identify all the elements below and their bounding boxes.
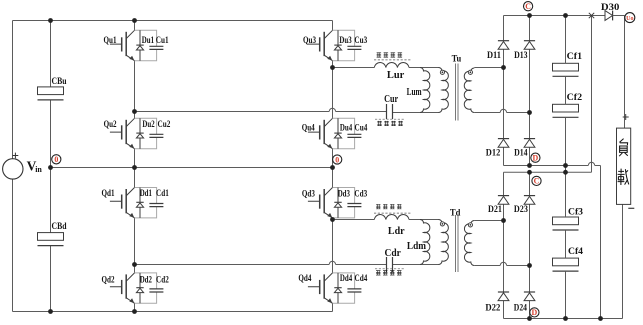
svg-text:Uo: Uo — [626, 16, 633, 22]
wire left rail upper — [12, 21, 14, 159]
wire hop over leg2 lower — [329, 261, 335, 264]
polarity dot Tu secondary — [468, 70, 472, 74]
source Vin — [3, 159, 23, 179]
wire node B to Lur — [333, 67, 375, 69]
diode D21 — [498, 196, 509, 205]
svg-text:Cf3: Cf3 — [568, 208, 583, 218]
svg-text:D12: D12 — [486, 149, 501, 159]
svg-text:Dd1: Dd1 — [140, 189, 152, 199]
svg-text:Cf2: Cf2 — [567, 93, 583, 103]
svg-text:Du3: Du3 — [339, 36, 351, 46]
capacitor CBu — [38, 87, 64, 100]
transformer Tu core — [456, 64, 459, 121]
svg-text:Cd1: Cd1 — [156, 189, 169, 199]
node C lower — [532, 176, 541, 185]
svg-text:D23: D23 — [514, 205, 528, 215]
svg-text:D21: D21 — [488, 205, 502, 215]
wire Ldr to Td primary top — [409, 219, 439, 221]
wire D13 column — [529, 16, 531, 166]
svg-text:Qd3: Qd3 — [302, 189, 315, 199]
wire link C-lower to top — [591, 16, 593, 173]
wire hop over output line — [588, 162, 594, 165]
svg-text:D13: D13 — [514, 51, 528, 61]
wire Cdr to Td primary bottom — [393, 264, 439, 266]
svg-text:D11: D11 — [487, 51, 501, 61]
svg-text:0: 0 — [335, 155, 339, 164]
junction dots — [48, 18, 53, 23]
polarity dot Td secondary — [468, 223, 472, 227]
diode D13 — [524, 41, 535, 50]
transformer Tu secondary — [464, 68, 474, 113]
diode D12 — [498, 139, 509, 148]
wire D30 to load — [613, 16, 625, 129]
wire hop over D11 column — [500, 109, 506, 112]
wire hop over D21 column — [500, 262, 506, 265]
diode D14 — [524, 139, 535, 148]
transistor Qu2 with diode Du2 and capacitor Cu2 — [110, 118, 163, 148]
svg-text:Cu3: Cu3 — [354, 36, 367, 46]
svg-text:Qd4: Qd4 — [298, 274, 311, 284]
svg-text:Du4: Du4 — [340, 123, 352, 133]
transistor Qu1 with diode Du1 and capacitor Cu1 — [110, 30, 163, 60]
svg-text:D: D — [532, 308, 538, 317]
wire node B2 to Ldr — [333, 219, 375, 221]
svg-text:Cu4: Cu4 — [355, 123, 368, 133]
svg-text:Qu2: Qu2 — [104, 120, 117, 130]
svg-text:D24: D24 — [514, 303, 527, 313]
svg-text:Qd2: Qd2 — [102, 275, 115, 285]
wire mid rail (node 0) — [51, 167, 333, 169]
inductor Lur — [374, 63, 409, 68]
polarity dot Tu primary — [440, 70, 444, 74]
transformer Td core — [456, 215, 459, 272]
svg-text:Cd3: Cd3 — [354, 189, 367, 199]
inductor Lum (magnetizing upper) — [420, 68, 430, 113]
inductor Ldm (magnetizing lower) — [420, 220, 430, 265]
capacitor Cf4 — [553, 258, 579, 271]
wire bottom rail — [13, 311, 333, 313]
wire left rail lower — [12, 179, 14, 311]
svg-text:D30: D30 — [601, 3, 620, 13]
svg-text:Cf1: Cf1 — [567, 52, 583, 62]
svg-text:Lur: Lur — [387, 70, 405, 81]
wire D23 column — [529, 172, 531, 318]
transistor Qu3 with diode Du3 and capacitor Cu3 — [308, 30, 362, 60]
svg-text:Cdr: Cdr — [385, 248, 402, 259]
wire top rail — [13, 20, 333, 22]
capacitor Cf2 — [553, 104, 579, 117]
svg-text:Qu4: Qu4 — [302, 123, 315, 133]
svg-text:Du2: Du2 — [142, 120, 154, 130]
diode D23 — [524, 196, 535, 205]
wire hop over leg2 upper — [329, 108, 335, 111]
label resonant-capacitor upper (CJK) — [375, 118, 404, 120]
wire node A to Cur — [135, 111, 387, 113]
transformer Tu primary — [439, 68, 449, 113]
capacitor Cur — [387, 104, 393, 119]
svg-text:Cur: Cur — [384, 94, 398, 105]
svg-text:Cu2: Cu2 — [158, 120, 171, 130]
wire Td secondary top to D21 junction — [474, 220, 503, 222]
wire rectifier bottom rail upper — [504, 165, 601, 167]
transformer Td secondary — [464, 221, 474, 266]
label plus — [623, 114, 629, 120]
svg-text:Cf4: Cf4 — [568, 247, 583, 257]
svg-text:Cd4: Cd4 — [355, 274, 368, 284]
node C upper — [524, 2, 533, 11]
svg-text:Lum: Lum — [407, 87, 422, 98]
wire link D-upper to bottom — [600, 166, 602, 319]
transistor Qu4 with diode Du4 and capacitor Cu4 — [308, 118, 362, 148]
wire D11 column — [503, 16, 505, 166]
wire rectifier top rail lower — [504, 171, 592, 173]
svg-text:Ldr: Ldr — [388, 226, 405, 237]
svg-text:Qu1: Qu1 — [104, 36, 117, 46]
label minus — [628, 207, 634, 209]
svg-text:Dd2: Dd2 — [140, 275, 152, 285]
svg-text:in: in — [35, 165, 42, 174]
label resonant-inductor upper (CJK) — [377, 52, 382, 57]
capacitor Cdr — [387, 257, 393, 272]
transformer Td primary — [439, 220, 449, 265]
transistor Qd4 with diode Dd4 and capacitor Cd4 — [308, 273, 362, 303]
svg-text:D: D — [533, 154, 539, 163]
label load char zai — [618, 169, 629, 185]
diode D22 — [498, 292, 509, 301]
wire Td secondary bottom to D23 junction — [474, 265, 529, 267]
wire load bottom return — [622, 204, 624, 318]
node Uo — [625, 13, 635, 23]
svg-text:C: C — [525, 2, 531, 11]
svg-text:Qu3: Qu3 — [303, 36, 316, 46]
node 0 at source — [52, 155, 61, 164]
diode D30 — [605, 11, 613, 21]
wire leg1 segments — [134, 21, 136, 312]
svg-text:Cd2: Cd2 — [156, 275, 169, 285]
svg-text:Tu: Tu — [452, 55, 462, 65]
wire Cur to Tu primary bottom — [393, 112, 439, 114]
wire leg2 segments — [332, 21, 334, 312]
svg-text:D22: D22 — [485, 303, 500, 313]
svg-text:Td: Td — [450, 208, 461, 218]
polarity dot Td primary — [440, 222, 444, 226]
wire CBd branch — [50, 168, 52, 312]
capacitor Cf3 — [553, 217, 579, 230]
wire node A2 to Cdr — [135, 264, 387, 266]
capacitor Cf1 — [553, 63, 579, 76]
junction cross marker — [589, 13, 594, 18]
wire Tu secondary bottom to D13 junction — [474, 112, 529, 114]
svg-text:Dd3: Dd3 — [338, 189, 350, 199]
wire rectifier bottom rail lower — [504, 318, 623, 320]
label resonant-capacitor lower (CJK) — [375, 268, 404, 270]
transistor Qd2 with diode Dd2 and capacitor Cd2 — [110, 273, 163, 303]
node D lower — [530, 308, 539, 317]
label load char fu — [619, 139, 628, 157]
transistor Qd1 with diode Dd1 and capacitor Cd1 — [110, 188, 163, 218]
wire Tu secondary top to D11 junction — [474, 67, 503, 69]
label resonant-inductor lower (CJK) — [376, 204, 381, 209]
wire Lur to Tu primary top — [409, 67, 439, 69]
svg-text:0: 0 — [54, 155, 58, 164]
wire CBu branch — [50, 21, 52, 168]
svg-text:D14: D14 — [514, 149, 528, 159]
diode D11 — [498, 41, 509, 50]
svg-text:Dd4: Dd4 — [340, 274, 352, 284]
svg-text:CBu: CBu — [52, 77, 68, 87]
svg-text:Qd1: Qd1 — [102, 189, 115, 199]
svg-text:Du1: Du1 — [142, 36, 154, 46]
load resistor (fu-zai) — [617, 128, 631, 204]
wire Cf column lower — [565, 172, 567, 318]
diode D24 — [524, 292, 535, 301]
svg-text:Cu1: Cu1 — [156, 36, 169, 46]
node D upper — [531, 153, 540, 162]
inductor Ldr — [374, 215, 409, 220]
svg-text:CBd: CBd — [52, 222, 68, 232]
wire Cf column upper — [565, 16, 567, 173]
transistor Qd3 with diode Dd3 and capacitor Cd3 — [308, 188, 362, 218]
svg-text:C: C — [534, 177, 540, 186]
capacitor CBd — [38, 233, 64, 246]
svg-text:Ldm: Ldm — [407, 241, 426, 252]
node 0 at leg2 — [333, 155, 342, 164]
wire rectifier top rail upper — [504, 15, 606, 17]
wire D21 column — [503, 172, 505, 318]
